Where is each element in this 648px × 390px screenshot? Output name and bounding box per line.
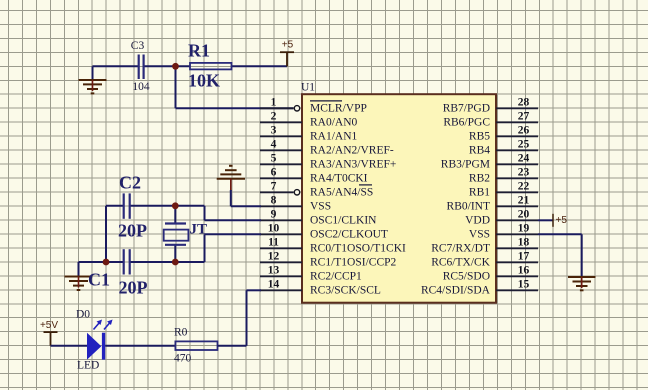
pin number 2 xyxy=(271,110,277,122)
svg-text:RA5/AN4/SS: RA5/AN4/SS xyxy=(310,187,373,199)
designator U1 xyxy=(301,82,315,94)
pin 28 name RB7/PGD xyxy=(443,103,490,115)
pin number 3 xyxy=(271,124,277,136)
svg-text:RC0/T1OSO/T1CKI: RC0/T1OSO/T1CKI xyxy=(310,243,406,255)
power +5 (top) xyxy=(280,52,294,66)
svg-text:RB4: RB4 xyxy=(469,145,490,157)
svg-text:4: 4 xyxy=(271,138,277,150)
wire: OSC2 net, C1 to junction to corner xyxy=(130,261,205,263)
pin 26 stub xyxy=(496,135,538,137)
pin number 22 xyxy=(518,180,530,192)
svg-text:RC7/RX/DT: RC7/RX/DT xyxy=(431,243,490,255)
pin number 10 xyxy=(268,222,280,234)
pin 3 stub xyxy=(260,135,302,137)
pin 2 name RA0/AN0 xyxy=(310,117,358,129)
wire: OSC1 net top left segment xyxy=(106,205,124,207)
svg-text:10K: 10K xyxy=(188,70,220,90)
pin 17 name RC6/TX/CK xyxy=(431,257,490,269)
svg-text:11: 11 xyxy=(268,236,279,248)
pin number 25 xyxy=(518,138,530,150)
label C1 xyxy=(88,270,110,290)
capacitor C3 xyxy=(139,55,144,80)
svg-text:16: 16 xyxy=(518,264,530,276)
label JT xyxy=(190,222,208,238)
pin 24 name RB3/PGM xyxy=(441,159,490,171)
svg-text:RB5: RB5 xyxy=(469,131,490,143)
ground symbol (bottom-right) xyxy=(568,277,596,290)
wire: LED cathode to R0 xyxy=(105,345,175,347)
pin 8 stub xyxy=(260,205,302,207)
pin 27 name RB6/PGC xyxy=(443,117,490,129)
pin 20 stub xyxy=(496,219,538,221)
value 470 xyxy=(174,353,192,365)
wire: R1 right to +5 stem xyxy=(232,65,288,67)
label R1 xyxy=(188,40,210,60)
svg-text:JT: JT xyxy=(190,222,208,238)
pin number 12 xyxy=(268,250,280,262)
svg-text:RB1: RB1 xyxy=(469,187,490,199)
pin number 7 xyxy=(271,180,277,192)
pin 1 name MCLR/VPP with overline xyxy=(310,101,367,115)
wire: VSS pin 8 horizontal xyxy=(231,205,261,207)
pin 23 stub xyxy=(496,177,538,179)
svg-text:RC1/T1OSI/CCP2: RC1/T1OSI/CCP2 xyxy=(310,257,397,269)
pin 21 stub xyxy=(496,205,538,207)
pin 9 stub xyxy=(260,219,302,221)
wire: to pin 14 xyxy=(247,289,262,291)
svg-text:LED: LED xyxy=(77,359,99,371)
pin 2 stub xyxy=(260,121,302,123)
svg-text:RC5/SDO: RC5/SDO xyxy=(443,271,490,283)
wire: junction down to pin1 row xyxy=(175,66,177,108)
pin 5 name RA3/AN3/VREF+ xyxy=(310,159,396,171)
svg-text:RA0/AN0: RA0/AN0 xyxy=(310,117,358,129)
pin number 1 xyxy=(271,96,277,108)
wire: crystal bottom stem xyxy=(174,245,176,262)
svg-text:19: 19 xyxy=(518,222,530,234)
svg-text:RC2/CCP1: RC2/CCP1 xyxy=(310,271,362,283)
pin 15 stub xyxy=(496,289,538,291)
svg-text:10: 10 xyxy=(268,222,280,234)
svg-text:+5V: +5V xyxy=(40,320,58,331)
label D0 xyxy=(76,308,90,320)
pin 14 name RC3/SCK/SCL xyxy=(310,285,381,297)
svg-text:+5: +5 xyxy=(282,40,294,51)
svg-text:25: 25 xyxy=(518,138,530,150)
IC U1 body xyxy=(302,94,496,303)
wire: VSS pin 19 down to ground xyxy=(581,234,583,277)
capacitor C2 xyxy=(124,193,130,218)
wire: OSC1 corner down xyxy=(204,206,206,221)
svg-text:RB7/PGD: RB7/PGD xyxy=(443,103,490,115)
pin 27 stub xyxy=(496,121,538,123)
wire: ground side vertical joining C2/C1 xyxy=(105,206,107,262)
pin 24 stub xyxy=(496,163,538,165)
crystal JT xyxy=(164,224,189,245)
svg-text:22: 22 xyxy=(518,180,530,192)
svg-text:20: 20 xyxy=(518,208,530,220)
svg-text:U1: U1 xyxy=(301,82,315,94)
pin number 24 xyxy=(518,152,530,164)
wire: C3 right plate to R1 left, through junction xyxy=(143,65,190,67)
wire: crystal top stem xyxy=(174,206,176,224)
value 20P (C2) xyxy=(118,220,147,240)
svg-text:18: 18 xyxy=(518,236,530,248)
junction at R1/C3/pin1 node xyxy=(172,63,179,70)
svg-text:RB3/PGM: RB3/PGM xyxy=(441,159,490,171)
label R0 xyxy=(174,327,188,339)
wire: OSC1 to pin 9 xyxy=(205,219,262,221)
pin 20 name VDD xyxy=(465,215,490,227)
pin 4 stub xyxy=(260,149,302,151)
svg-text:VSS: VSS xyxy=(469,229,490,241)
junction at OSC1 node xyxy=(172,202,179,209)
pin number 13 xyxy=(268,264,280,276)
svg-text:MCLR/VPP: MCLR/VPP xyxy=(310,103,367,115)
wire: VSS pin 19 horizontal xyxy=(538,233,582,235)
LED arrow 2 xyxy=(104,320,112,329)
svg-text:+5: +5 xyxy=(556,215,568,226)
pin number 8 xyxy=(271,194,277,206)
svg-text:RA3/AN3/VREF+: RA3/AN3/VREF+ xyxy=(310,159,396,171)
label C3 xyxy=(131,40,145,52)
svg-text:21: 21 xyxy=(518,194,530,206)
pin 23 name RB2 xyxy=(469,173,490,185)
svg-text:24: 24 xyxy=(518,152,530,164)
value 104 xyxy=(132,81,150,93)
pin 1 inversion bubble xyxy=(294,106,299,111)
pin 8 name VSS xyxy=(310,201,331,213)
svg-text:15: 15 xyxy=(518,278,530,290)
pin number 18 xyxy=(518,236,530,248)
svg-text:RA4/T0CKI: RA4/T0CKI xyxy=(310,173,368,185)
pin number 14 xyxy=(268,278,280,290)
pin number 28 xyxy=(518,96,530,108)
pin number 19 xyxy=(518,222,530,234)
svg-text:RC6/TX/CK: RC6/TX/CK xyxy=(431,257,490,269)
pin 22 name RB1 xyxy=(469,187,490,199)
svg-text:5: 5 xyxy=(271,152,277,164)
LED D0 cathode bar xyxy=(102,333,105,360)
pin 28 stub xyxy=(496,107,538,109)
svg-text:28: 28 xyxy=(518,96,530,108)
svg-text:26: 26 xyxy=(518,124,530,136)
pin 12 stub xyxy=(260,261,302,263)
svg-text:23: 23 xyxy=(518,166,530,178)
label LED xyxy=(77,359,99,371)
wire: +5V to LED anode xyxy=(51,345,88,347)
resistor R0 xyxy=(175,341,217,350)
pin 6 stub xyxy=(260,177,302,179)
wire: horizontal run to pin 1 bubble (MCLR) xyxy=(176,107,294,109)
svg-text:17: 17 xyxy=(518,250,530,262)
wire: OSC2 net bottom left segment xyxy=(79,261,124,263)
pin 21 name RB0/INT xyxy=(447,201,490,213)
net label +5V xyxy=(40,320,58,331)
pin 5 stub xyxy=(260,163,302,165)
value 20P (C1) xyxy=(119,278,148,298)
wire: OSC2 to pin 10 xyxy=(205,233,262,235)
svg-text:3: 3 xyxy=(271,124,277,136)
svg-text:9: 9 xyxy=(271,208,277,220)
pin number 21 xyxy=(518,194,530,206)
svg-text:470: 470 xyxy=(174,353,192,365)
svg-text:RB0/INT: RB0/INT xyxy=(447,201,490,213)
svg-text:OSC1/CLKIN: OSC1/CLKIN xyxy=(310,215,377,227)
power +5V (bottom-left) xyxy=(44,332,58,346)
svg-text:6: 6 xyxy=(271,166,277,178)
pin number 9 xyxy=(271,208,277,220)
pin 12 name RC1/T1OSI/CCP2 xyxy=(310,257,397,269)
svg-text:8: 8 xyxy=(271,194,277,206)
pin 19 name VSS xyxy=(469,229,490,241)
pin number 4 xyxy=(271,138,277,150)
svg-text:D0: D0 xyxy=(76,308,90,320)
value 10K xyxy=(188,70,220,90)
wire: OSC1 net, C2 to junction to corner xyxy=(130,205,205,207)
pin 6 name RA4/T0CKI xyxy=(310,173,368,185)
svg-text:RA1/AN1: RA1/AN1 xyxy=(310,131,358,143)
wire: ground stem at top-left xyxy=(92,66,94,80)
pin 7 inversion bubble xyxy=(294,190,299,195)
svg-text:R0: R0 xyxy=(174,327,188,339)
pin 13 name RC2/CCP1 xyxy=(310,271,362,283)
svg-text:20P: 20P xyxy=(118,220,147,240)
pin 3 name RA1/AN1 xyxy=(310,131,358,143)
wire: OSC2 corner up xyxy=(204,234,206,262)
ground symbol (top-left) xyxy=(79,80,107,93)
pin 13 stub xyxy=(260,275,302,277)
pin 16 stub xyxy=(496,275,538,277)
svg-text:VDD: VDD xyxy=(465,215,490,227)
pin 15 name RC4/SDI/SDA xyxy=(421,285,491,297)
svg-text:C2: C2 xyxy=(119,172,141,192)
svg-text:RC3/SCK/SCL: RC3/SCK/SCL xyxy=(310,285,381,297)
pin number 15 xyxy=(518,278,530,290)
pin 1 stub xyxy=(260,107,294,109)
pin number 6 xyxy=(271,166,277,178)
pin 4 name RA2/AN2/VREF- xyxy=(310,145,394,157)
pin 11 stub xyxy=(260,247,302,249)
pin number 16 xyxy=(518,264,530,276)
pin number 20 xyxy=(518,208,530,220)
pin 11 name RC0/T1OSO/T1CKI xyxy=(310,243,406,255)
pin 17 stub xyxy=(496,261,538,263)
net label +5 (right) xyxy=(556,215,568,226)
pin 7 stub xyxy=(260,191,294,193)
pin 25 name RB4 xyxy=(469,145,490,157)
pin 26 name RB5 xyxy=(469,131,490,143)
pin number 26 xyxy=(518,124,530,136)
pin 16 name RC5/SDO xyxy=(443,271,490,283)
svg-text:VSS: VSS xyxy=(310,201,331,213)
svg-text:RC4/SDI/SDA: RC4/SDI/SDA xyxy=(421,285,491,297)
pin 10 stub xyxy=(260,233,302,235)
svg-text:C1: C1 xyxy=(88,270,110,290)
junction at ground vertical / bottom wire xyxy=(103,259,110,266)
pin number 23 xyxy=(518,166,530,178)
pin 19 stub xyxy=(496,233,538,235)
svg-text:RA2/AN2/VREF-: RA2/AN2/VREF- xyxy=(310,145,394,157)
wire: VSS pin 8 ground stem xyxy=(230,190,232,206)
svg-text:13: 13 xyxy=(268,264,280,276)
LED arrow 1 xyxy=(94,320,102,329)
svg-text:7: 7 xyxy=(271,180,277,192)
svg-text:104: 104 xyxy=(132,81,150,93)
svg-text:20P: 20P xyxy=(119,278,148,298)
svg-text:R1: R1 xyxy=(188,40,210,60)
net label +5 (top) xyxy=(282,40,294,51)
svg-text:C3: C3 xyxy=(131,40,145,52)
svg-text:RB2: RB2 xyxy=(469,173,490,185)
pin number 5 xyxy=(271,152,277,164)
svg-text:RB6/PGC: RB6/PGC xyxy=(443,117,490,129)
svg-text:2: 2 xyxy=(271,110,277,122)
pin number 27 xyxy=(518,110,530,122)
pin number 17 xyxy=(518,250,530,262)
pin 14 stub xyxy=(260,289,302,291)
pin 9 name OSC1/CLKIN xyxy=(310,215,377,227)
capacitor C1 xyxy=(124,249,130,274)
power +5 (right, VDD pin 20) xyxy=(538,214,553,227)
pin 25 stub xyxy=(496,149,538,151)
pin number 11 xyxy=(268,236,279,248)
ground symbol (above pin 8, inverted) xyxy=(217,166,245,191)
wire: ground stem bottom-left of crystal xyxy=(78,262,80,277)
wire: R0 to corner xyxy=(218,345,247,347)
svg-text:1: 1 xyxy=(271,96,277,108)
label C2 xyxy=(119,172,141,192)
pin 10 name OSC2/CLKOUT xyxy=(310,229,388,241)
resistor R1 xyxy=(190,63,232,70)
svg-text:12: 12 xyxy=(268,250,280,262)
pin 18 name RC7/RX/DT xyxy=(431,243,490,255)
wire: C3-R1 net, ground to C3 left plate xyxy=(93,65,139,67)
svg-text:27: 27 xyxy=(518,110,530,122)
wire: corner up to pin 14 row xyxy=(246,290,248,346)
ground symbol (below C1) xyxy=(65,277,93,291)
svg-text:14: 14 xyxy=(268,278,280,290)
junction at OSC2 node xyxy=(172,259,179,266)
LED D0 triangle xyxy=(87,333,101,360)
pin 7 name RA5/AN4/SS with overline xyxy=(310,185,373,199)
pin 22 stub xyxy=(496,191,538,193)
pin 18 stub xyxy=(496,247,538,249)
svg-text:OSC2/CLKOUT: OSC2/CLKOUT xyxy=(310,229,388,241)
